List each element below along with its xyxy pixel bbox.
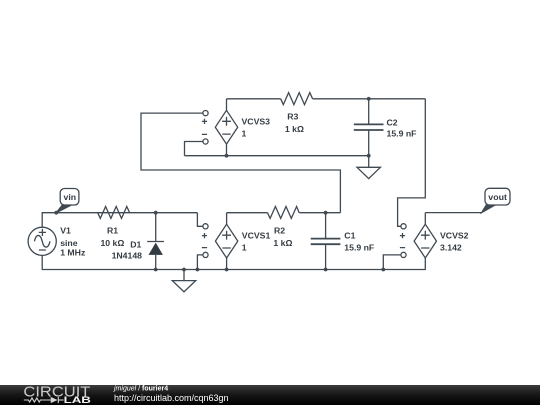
svg-text:vin: vin xyxy=(64,192,77,202)
svg-text:R1: R1 xyxy=(107,225,118,235)
svg-text:LAB: LAB xyxy=(64,395,91,405)
wire feedback from VCVS3 + control down to R2/C1 node xyxy=(141,113,340,213)
resistor R1 xyxy=(98,207,130,219)
svg-text:1: 1 xyxy=(242,128,247,138)
node vin flag xyxy=(54,189,79,215)
vcvs U3 control terminals xyxy=(202,111,208,145)
svg-text:http://circuitlab.com/cqn63gn: http://circuitlab.com/cqn63gn xyxy=(114,393,229,403)
svg-text:vout: vout xyxy=(488,192,507,202)
wire row1 top rail xyxy=(227,98,281,100)
node junction VCVS1 bottom xyxy=(225,268,229,272)
node junction C2 top xyxy=(367,97,371,101)
svg-text:C2: C2 xyxy=(387,118,398,128)
svg-text:VCVS3: VCVS3 xyxy=(242,117,271,127)
svg-text:15.9 nF: 15.9 nF xyxy=(387,129,417,139)
wire row1 bottom line xyxy=(185,155,369,157)
ground G2 xyxy=(172,268,195,292)
svg-text:1 kΩ: 1 kΩ xyxy=(273,238,292,248)
svg-text:1: 1 xyxy=(242,242,247,252)
wire VCVS2 - control xyxy=(383,255,401,270)
svg-text:V1: V1 xyxy=(60,225,71,235)
node junction VCVS3 bottom xyxy=(225,154,229,158)
node junction R2/C1/feedback xyxy=(324,211,328,215)
diode D1 xyxy=(147,213,164,270)
node junction C1 bottom xyxy=(324,268,328,272)
svg-text:C1: C1 xyxy=(344,231,355,241)
svg-text:R2: R2 xyxy=(274,225,285,235)
svg-text:3.142: 3.142 xyxy=(440,242,462,252)
svg-text:VCVS2: VCVS2 xyxy=(440,231,469,241)
ground G1 xyxy=(357,156,380,179)
node junction C2 bottom xyxy=(367,154,371,158)
wire VCVS1 + control xyxy=(197,213,203,227)
voltage source V1 xyxy=(28,227,56,255)
wire vout xyxy=(425,212,481,214)
node junction VCVS1 - drop xyxy=(196,268,200,272)
wire VCVS1 - control xyxy=(197,255,203,270)
capacitor C2 xyxy=(354,99,384,156)
vcvs VCVS1 xyxy=(215,213,237,270)
wire row2 bottom rail xyxy=(42,255,425,269)
svg-text:1 kΩ: 1 kΩ xyxy=(285,124,304,134)
wire row2 top rail left (V1 to VCVS1 jog) xyxy=(42,213,197,228)
node junction D1 top xyxy=(154,211,158,215)
svg-text:1N4148: 1N4148 xyxy=(112,250,143,260)
node vout flag xyxy=(482,188,510,212)
svg-text:10 kΩ: 10 kΩ xyxy=(100,238,124,248)
wire VCVS3 - control loop xyxy=(185,142,203,156)
svg-text:1 MHz: 1 MHz xyxy=(60,247,86,257)
svg-text:D1: D1 xyxy=(130,239,141,249)
wire from top block to VCVS2 + control xyxy=(398,99,426,227)
vcvs VCVS3 xyxy=(215,99,237,156)
footer bar xyxy=(0,383,540,405)
vcvs U2 control terminals xyxy=(400,224,406,258)
svg-text:jmiguel / fourier4: jmiguel / fourier4 xyxy=(113,385,168,392)
resistor R2 xyxy=(268,207,300,219)
svg-text:R3: R3 xyxy=(287,111,298,121)
vcvs U1 control terminals xyxy=(202,224,208,258)
capacitor C1 xyxy=(311,213,341,270)
wire row2 top rail right xyxy=(227,212,268,214)
node junction VCVS2 - drop xyxy=(381,268,385,272)
svg-text:VCVS1: VCVS1 xyxy=(242,231,271,241)
svg-text:sine: sine xyxy=(60,238,78,248)
vcvs VCVS2 xyxy=(414,213,436,258)
CircuitLab logo xyxy=(23,383,91,405)
svg-text:15.9 nF: 15.9 nF xyxy=(344,243,374,253)
resistor R3 xyxy=(281,93,313,105)
node junction D1 bottom xyxy=(154,268,158,272)
